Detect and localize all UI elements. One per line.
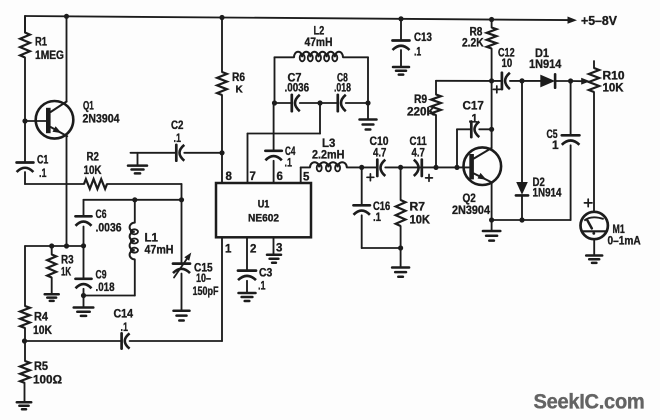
resistor R7 bbox=[396, 167, 431, 248]
svg-text:R7: R7 bbox=[410, 200, 426, 214]
svg-text:NE602: NE602 bbox=[248, 213, 279, 225]
wire: R1 to Q1 base node bbox=[24, 58, 26, 122]
U1 pin 1 bbox=[225, 244, 232, 256]
svg-text:.0036: .0036 bbox=[285, 83, 310, 95]
svg-text:10K: 10K bbox=[33, 323, 52, 337]
ground below C3 bbox=[239, 293, 256, 301]
svg-text:10–: 10– bbox=[196, 271, 211, 285]
capacitor C5 bbox=[547, 81, 580, 220]
svg-text:2: 2 bbox=[250, 244, 256, 256]
capacitor C12 (polarized) bbox=[492, 46, 515, 93]
U1 pin 3 bbox=[274, 237, 283, 254]
ground at U1 pin 3 bbox=[267, 255, 281, 263]
resistor R6 bbox=[217, 18, 245, 153]
wire: left rail (R3 wire to R4) bbox=[24, 246, 26, 306]
wire: +5-8V supply rail (top) bbox=[25, 16, 568, 20]
svg-text:2.2K: 2.2K bbox=[462, 36, 484, 50]
ground below C9 bbox=[74, 296, 94, 316]
junction L2 left / C7 / C4 bbox=[272, 100, 277, 105]
inductor L1 bbox=[130, 200, 174, 296]
junction top rail / R6 bbox=[219, 15, 224, 20]
wire + wiper arrow into R10 bbox=[571, 78, 591, 85]
junction tank top / C15 bbox=[179, 197, 184, 202]
capacitor C11 (polarized) bbox=[410, 134, 433, 181]
svg-text:1: 1 bbox=[552, 138, 559, 152]
capacitor C9 bbox=[76, 246, 115, 294]
inductor L2 bbox=[275, 24, 369, 104]
ground below C15 bbox=[174, 311, 190, 321]
wire: C9 to ground node bbox=[83, 289, 85, 296]
junction R9 bottom bbox=[433, 165, 438, 170]
ground at C2 bbox=[128, 153, 147, 174]
svg-text:.1: .1 bbox=[469, 112, 478, 126]
svg-text:10: 10 bbox=[502, 56, 513, 70]
junction Q2 emitter / bottom wire bbox=[489, 217, 494, 222]
ground below R3 bbox=[45, 294, 59, 301]
diode D2 1N914 bbox=[516, 81, 562, 220]
resistor R4 bbox=[20, 306, 52, 337]
meter M1 bbox=[581, 212, 641, 248]
resistor R1 bbox=[20, 16, 64, 62]
svg-text:+5–8V: +5–8V bbox=[581, 14, 618, 28]
wire: C10 to C11 node bbox=[385, 166, 422, 168]
svg-text:Q1: Q1 bbox=[83, 99, 94, 113]
wire: R2 to C15 top corner bbox=[107, 184, 182, 200]
ground below M1 bbox=[586, 256, 602, 263]
U1 pin 5 bbox=[301, 167, 310, 183]
svg-text:C3: C3 bbox=[259, 266, 273, 280]
junction C9/L1 ground node bbox=[81, 293, 86, 298]
svg-text:1: 1 bbox=[225, 244, 232, 256]
svg-text:C17: C17 bbox=[463, 99, 485, 113]
U1 pin 2 bbox=[247, 237, 256, 270]
svg-text:10K: 10K bbox=[603, 81, 624, 95]
junction C6/C9 node bbox=[81, 243, 86, 248]
node + terminal of M1 bbox=[584, 199, 592, 207]
wire: C2 to pin8 column bbox=[184, 152, 222, 154]
svg-text:R2: R2 bbox=[87, 150, 100, 164]
wire: C7 to C8 node bbox=[300, 102, 338, 104]
svg-text:.1: .1 bbox=[174, 131, 182, 145]
wire: Q1 collector to top rail bbox=[66, 16, 68, 101]
wire: C14 to U1 pin 1 bbox=[130, 237, 222, 341]
junction C17 / Q2 collector bbox=[489, 127, 494, 132]
junction C16/R7 ground node bbox=[398, 245, 403, 250]
junction tank top / L1 bbox=[132, 197, 137, 202]
svg-text:.018: .018 bbox=[334, 83, 351, 95]
svg-text:C1: C1 bbox=[37, 153, 49, 167]
junction D2 / bottom wire bbox=[519, 217, 524, 222]
svg-text:220K: 220K bbox=[407, 105, 435, 119]
svg-text:R5: R5 bbox=[34, 359, 48, 373]
wire: tank top (C6 to C15) bbox=[84, 199, 183, 201]
svg-text:U1: U1 bbox=[258, 199, 270, 211]
svg-text:6: 6 bbox=[277, 171, 283, 183]
junction C12 / D1 / D2 bbox=[519, 78, 524, 83]
node +5-8V supply arrow bbox=[568, 14, 618, 28]
svg-text:3: 3 bbox=[276, 243, 282, 255]
wire: C11 to Q2 base bbox=[422, 166, 469, 168]
svg-text:.1: .1 bbox=[39, 166, 47, 180]
svg-text:.1: .1 bbox=[414, 45, 421, 59]
wire: R5 to ground bbox=[24, 383, 26, 402]
ground below L2/C8 bbox=[360, 103, 377, 130]
svg-text:.1: .1 bbox=[121, 320, 129, 334]
junction R3 top bbox=[49, 243, 54, 248]
svg-text:1N914: 1N914 bbox=[533, 186, 562, 200]
U1 pin 8 bbox=[222, 153, 233, 183]
svg-text:2N3904: 2N3904 bbox=[83, 112, 120, 126]
wire: Q2 collector to C17/C12 bbox=[491, 81, 493, 148]
resistor R3 bbox=[47, 246, 74, 294]
watermark SeekIC.com bbox=[534, 391, 645, 414]
wire: C1 to R2 rail bbox=[24, 172, 26, 184]
junction C2 / R6 / pin 8 bbox=[219, 150, 224, 155]
diode D1 1N914 bbox=[522, 46, 562, 88]
ground below C13 bbox=[393, 67, 409, 75]
wire: M1 to ground bbox=[593, 239, 595, 255]
wire: D1 to C5/R10 node bbox=[555, 80, 571, 82]
svg-text:R6: R6 bbox=[232, 70, 245, 84]
junction L2 right / C8 bbox=[365, 100, 370, 105]
svg-text:R4: R4 bbox=[34, 310, 48, 324]
capacitor C16 bbox=[354, 167, 391, 248]
wire: bottom detector wire (emitter to C5) bbox=[492, 219, 571, 221]
svg-text:0–1mA: 0–1mA bbox=[608, 234, 641, 248]
inductor L3 bbox=[301, 136, 362, 171]
svg-text:R1: R1 bbox=[35, 35, 47, 49]
wire: C16 bottom to R7 bottom bbox=[362, 247, 401, 249]
wire: R3 node rail (left rail to C6/C9) bbox=[25, 245, 84, 247]
junction Q1 base node bbox=[22, 118, 27, 123]
svg-text:2.2mH: 2.2mH bbox=[312, 148, 344, 162]
capacitor C10 (polarized) bbox=[362, 134, 389, 181]
resistor R2 bbox=[25, 150, 107, 189]
wire: L1 bottom to C9 ground node bbox=[84, 295, 135, 297]
wire: Q2 emitter down bbox=[491, 183, 493, 220]
capacitor C1 bbox=[17, 121, 49, 180]
junction top rail / R8 bbox=[489, 17, 494, 22]
junction Q1 emitter / R3 wire bbox=[64, 243, 69, 248]
svg-text:7: 7 bbox=[250, 171, 256, 183]
junction R8 / C12 / collector bbox=[489, 78, 494, 83]
svg-text:C13: C13 bbox=[414, 30, 432, 44]
U1 pin 7 bbox=[248, 103, 321, 183]
junction left rail / C14 wire bbox=[22, 338, 27, 343]
svg-text:1N914: 1N914 bbox=[529, 57, 562, 71]
svg-text:C6: C6 bbox=[96, 207, 107, 221]
svg-text:.1: .1 bbox=[373, 210, 381, 224]
wire: R9 top to R8/C12 junction bbox=[436, 80, 492, 82]
svg-text:SeekIC.com: SeekIC.com bbox=[534, 391, 645, 414]
svg-text:4.7: 4.7 bbox=[412, 146, 426, 160]
capacitor C14 bbox=[25, 307, 134, 349]
ground below R5 bbox=[17, 402, 31, 409]
op-amp U1 NE602 (mixer IC) bbox=[216, 183, 311, 237]
wire: Q1 emitter down to R3 node bbox=[66, 136, 68, 246]
U1 pin 6 bbox=[274, 161, 283, 183]
svg-text:47mH: 47mH bbox=[305, 35, 333, 49]
svg-text:.0036: .0036 bbox=[96, 221, 122, 235]
resistor R5 bbox=[20, 341, 62, 387]
svg-text:10K: 10K bbox=[84, 163, 102, 177]
capacitor C3 bbox=[238, 266, 273, 293]
junction C10/C11 / R7 bbox=[398, 165, 403, 170]
svg-text:5: 5 bbox=[303, 172, 310, 184]
ground below Q2 emitter bbox=[483, 220, 500, 241]
capacitor C4 bbox=[265, 103, 295, 170]
svg-text:.1: .1 bbox=[285, 156, 293, 170]
junction top rail / C13 bbox=[398, 16, 403, 21]
wire: C12 to D2 node bbox=[510, 80, 522, 82]
svg-text:100Ω: 100Ω bbox=[33, 373, 62, 387]
resistor R9 bbox=[407, 81, 441, 168]
capacitor C2 bbox=[131, 118, 185, 161]
capacitor C7 bbox=[275, 71, 310, 112]
svg-text:C14: C14 bbox=[114, 307, 134, 321]
potentiometer R10 bbox=[589, 61, 625, 211]
transistor Q1 bbox=[25, 99, 120, 139]
svg-text:1MEG: 1MEG bbox=[35, 48, 64, 62]
junction C17 drop bbox=[454, 165, 459, 170]
variable capacitor C15 bbox=[173, 200, 219, 310]
junction top rail / Q1 collector bbox=[64, 14, 69, 19]
capacitor C13 bbox=[393, 19, 433, 67]
resistor R8 bbox=[462, 20, 497, 81]
svg-text:.1: .1 bbox=[258, 279, 266, 293]
svg-text:10K: 10K bbox=[410, 213, 431, 227]
svg-text:47mH: 47mH bbox=[145, 243, 174, 257]
capacitor C6 bbox=[76, 200, 122, 246]
svg-text:4.7: 4.7 bbox=[373, 146, 387, 160]
svg-text:K: K bbox=[236, 85, 244, 96]
wire: left rail top (R1 to Q1 base) bbox=[24, 16, 26, 33]
svg-text:1K: 1K bbox=[61, 265, 71, 279]
svg-text:C2: C2 bbox=[171, 118, 184, 132]
transistor Q2 bbox=[452, 147, 501, 217]
svg-text:150pF: 150pF bbox=[193, 284, 219, 298]
svg-text:.018: .018 bbox=[96, 280, 115, 294]
svg-text:2N3904: 2N3904 bbox=[452, 203, 490, 217]
junction D1 / C5 bbox=[568, 78, 573, 83]
capacitor C8 bbox=[334, 71, 368, 112]
ground below R7 bbox=[392, 248, 409, 277]
capacitor C17 bbox=[457, 99, 492, 168]
junction L3 / C16 / C10 bbox=[359, 165, 364, 170]
junction C7/C8 midpoint (pin 7 net) bbox=[317, 100, 322, 105]
svg-text:8: 8 bbox=[226, 171, 233, 183]
wire: R4 to R5 junction bbox=[24, 328, 26, 341]
